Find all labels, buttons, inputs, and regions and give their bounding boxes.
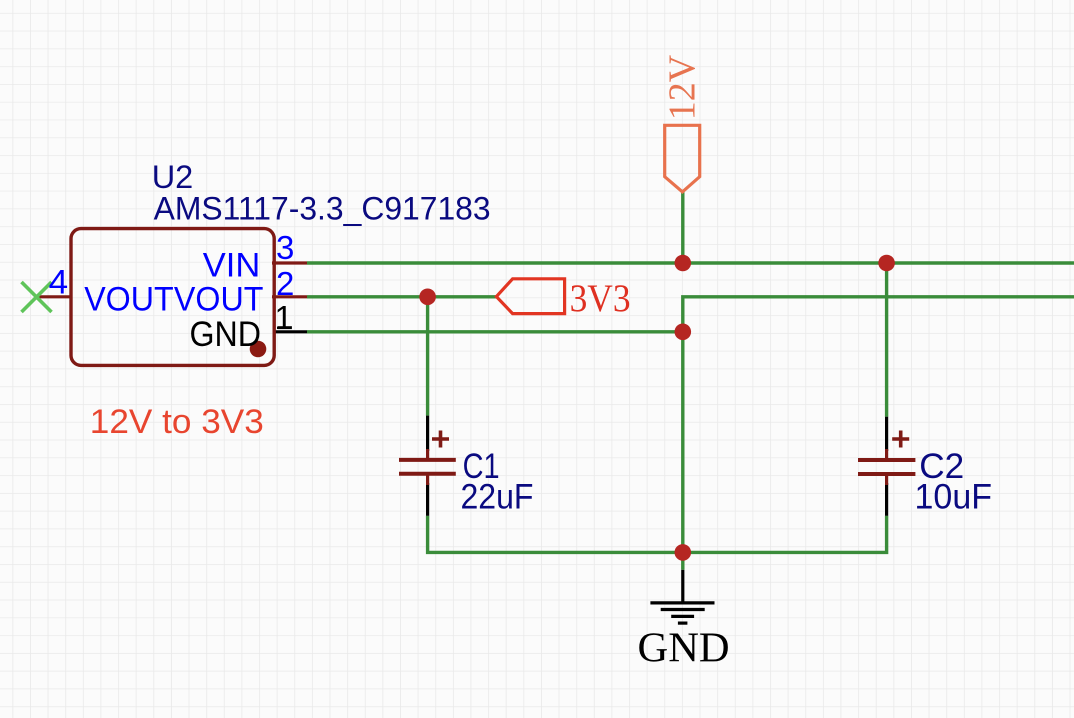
svg-text:10uF: 10uF xyxy=(915,477,993,517)
svg-text:12V: 12V xyxy=(662,54,704,120)
svg-text:VIN: VIN xyxy=(203,246,261,284)
svg-text:3: 3 xyxy=(276,229,294,266)
svg-text:GND: GND xyxy=(638,624,730,671)
svg-text:AMS1117-3.3_C917183: AMS1117-3.3_C917183 xyxy=(154,190,491,226)
svg-text:22uF: 22uF xyxy=(461,477,534,517)
svg-text:VOUT: VOUT xyxy=(84,280,174,318)
svg-text:2: 2 xyxy=(276,265,294,302)
svg-text:4: 4 xyxy=(49,264,69,302)
svg-text:VOUT: VOUT xyxy=(174,280,264,318)
svg-text:12V to 3V3: 12V to 3V3 xyxy=(90,403,264,441)
svg-text:1: 1 xyxy=(275,299,293,336)
svg-text:GND: GND xyxy=(190,315,262,354)
svg-text:3V3: 3V3 xyxy=(570,276,631,320)
